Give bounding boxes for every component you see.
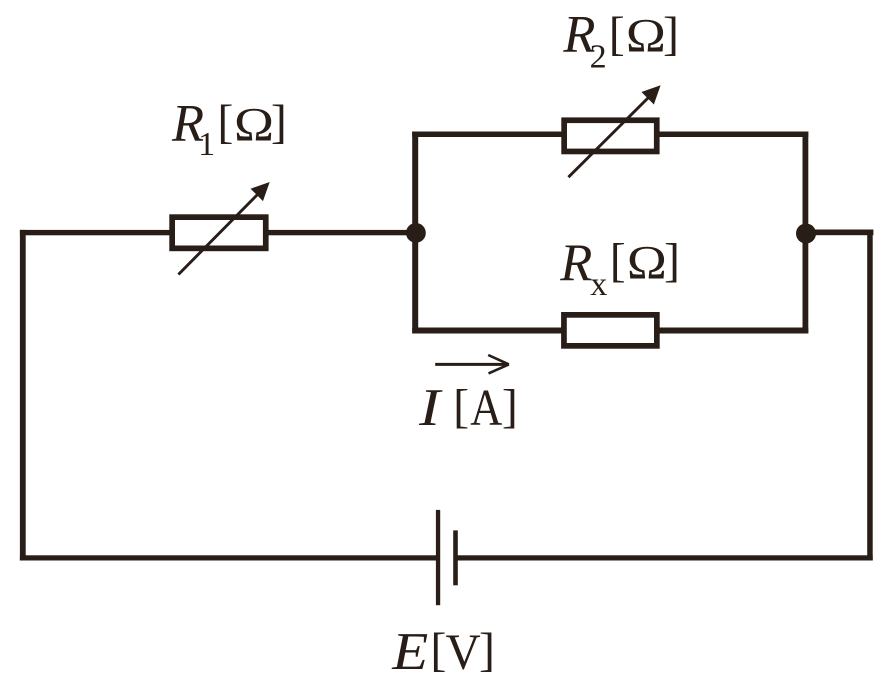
wire: outer right vertical bbox=[867, 230, 873, 561]
resistor R2 (variable) box bbox=[564, 120, 657, 151]
label R1[ohm] bbox=[171, 94, 287, 162]
svg-text:R: R bbox=[559, 234, 592, 292]
label Rx[ohm] bbox=[559, 234, 680, 303]
battery E: short plate bbox=[453, 530, 458, 585]
svg-text:x: x bbox=[590, 266, 607, 303]
svg-text:]: ] bbox=[271, 96, 287, 149]
arrow through R1 bbox=[178, 182, 269, 275]
label R2[ohm] bbox=[562, 5, 679, 75]
wire: bottom, left of battery bbox=[20, 555, 438, 560]
wire: main horizontal, left of R1 bbox=[20, 230, 172, 235]
wire: stub from node B to outer right bbox=[806, 230, 873, 236]
resistor Rx box bbox=[564, 315, 657, 346]
label E[V] bbox=[391, 623, 495, 681]
resistor R1 (variable) box bbox=[172, 217, 266, 248]
wire: top branch right segment bbox=[656, 132, 808, 138]
label I[A] bbox=[418, 379, 518, 437]
svg-text:]: ] bbox=[479, 624, 495, 677]
wire: bottom branch right segment bbox=[656, 328, 808, 334]
svg-text:2: 2 bbox=[590, 39, 607, 76]
wire: parallel-section left vertical bbox=[412, 132, 418, 334]
svg-text:Ω: Ω bbox=[626, 10, 666, 62]
svg-text:]: ] bbox=[502, 380, 518, 433]
svg-text:]: ] bbox=[664, 234, 680, 287]
wire: outer left vertical bbox=[20, 230, 26, 561]
svg-text:]: ] bbox=[663, 7, 679, 60]
svg-text:E: E bbox=[391, 623, 428, 681]
svg-text:1: 1 bbox=[198, 126, 215, 163]
svg-text:Ω: Ω bbox=[627, 238, 667, 290]
svg-text:[: [ bbox=[217, 96, 233, 149]
svg-text:[: [ bbox=[610, 234, 626, 287]
current arrow I bbox=[435, 355, 509, 373]
wire: parallel-section right vertical bbox=[803, 132, 809, 334]
svg-text:V: V bbox=[446, 624, 481, 681]
svg-text:[: [ bbox=[453, 380, 469, 433]
wire: top branch left segment bbox=[412, 132, 564, 138]
wire: main horizontal, right of R1 bbox=[266, 230, 416, 235]
battery E: long plate bbox=[436, 510, 440, 605]
wire: bottom branch left segment bbox=[412, 328, 563, 334]
svg-text:[: [ bbox=[609, 7, 625, 60]
wire: bottom, right of battery bbox=[456, 555, 873, 560]
node A: left junction dot bbox=[406, 223, 426, 243]
arrow through R2 bbox=[568, 85, 660, 177]
node B: right junction dot bbox=[796, 224, 816, 244]
svg-text:A: A bbox=[470, 380, 502, 437]
svg-text:Ω: Ω bbox=[234, 99, 274, 151]
svg-text:I: I bbox=[418, 379, 443, 437]
svg-text:[: [ bbox=[430, 624, 446, 677]
